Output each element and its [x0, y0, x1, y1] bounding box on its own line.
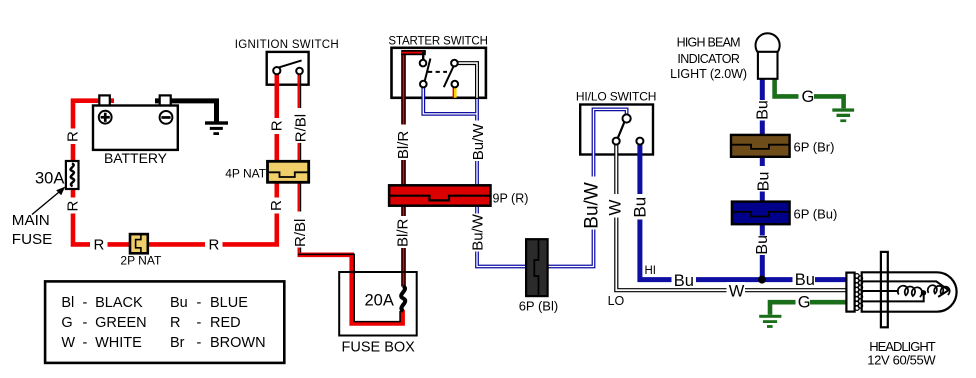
connector 9P (R): [389, 185, 490, 205]
starter switch box: [392, 48, 486, 98]
svg-text:INDICATOR: INDICATOR: [677, 52, 740, 66]
wire label R above 4P NAT: [268, 118, 285, 134]
wire label R/Bl below 4P NAT: [292, 212, 309, 248]
wire label Bu horizontal 2: [793, 271, 816, 289]
connector 6P (Bu): [732, 202, 790, 225]
svg-text:Bu/W: Bu/W: [581, 182, 602, 229]
svg-text:-: -: [197, 335, 202, 351]
connector 2P NAT: [130, 234, 148, 253]
svg-text:HI: HI: [645, 265, 657, 277]
wire label Bu/W below 9P: [470, 213, 487, 251]
connector 6P (Bl): [526, 239, 548, 296]
ground symbol bottom right green: [759, 315, 781, 328]
svg-text:BROWN: BROWN: [210, 335, 266, 351]
svg-text:IGNITION SWITCH: IGNITION SWITCH: [235, 39, 339, 51]
svg-text:Bu: Bu: [795, 271, 815, 289]
svg-text:6P (Bl): 6P (Bl): [519, 299, 559, 314]
svg-text:R/Bl: R/Bl: [292, 114, 309, 142]
fuse 20A squiggle: [401, 286, 405, 311]
svg-text:HIGH BEAM: HIGH BEAM: [677, 35, 741, 49]
wire label Bl/R above 9P: [395, 125, 412, 161]
ground symbol battery: [205, 121, 228, 135]
svg-text:R: R: [94, 237, 105, 254]
wire Y/R stub inside starter switch: [453, 87, 457, 98]
svg-text:6P (Br): 6P (Br): [794, 140, 835, 155]
svg-text:Bl/R: Bl/R: [394, 218, 411, 247]
connector 4P NAT: [268, 161, 309, 182]
indicator bulb: [756, 33, 780, 79]
wire G indicator to ground: [775, 79, 844, 109]
svg-text:-: -: [83, 295, 88, 311]
svg-text:Bl/R: Bl/R: [395, 131, 412, 160]
wire label Bu/W at hi/lo: [581, 177, 602, 230]
svg-text:BLUE: BLUE: [210, 295, 248, 311]
legend text rows: [61, 295, 265, 351]
headlight bulb body: [862, 272, 957, 311]
fuse box: [339, 272, 417, 336]
wire label Bu indicator 2: [755, 166, 773, 192]
wire label W horizontal: [727, 282, 746, 301]
svg-text:-: -: [83, 315, 88, 331]
svg-text:LO: LO: [608, 294, 625, 308]
wire label W below hi/lo: [605, 194, 624, 218]
wire W hi/lo to headlight: [616, 145, 847, 291]
svg-text:STARTER SWITCH: STARTER SWITCH: [388, 36, 488, 48]
svg-text:R: R: [268, 120, 285, 131]
svg-text:-: -: [197, 295, 202, 311]
svg-text:WHITE: WHITE: [95, 335, 142, 351]
svg-text:W: W: [61, 335, 75, 351]
wire label Bu/W above 9P: [470, 121, 487, 162]
svg-text:12V 60/55W: 12V 60/55W: [867, 353, 936, 368]
svg-text:MAIN: MAIN: [12, 212, 50, 229]
ignition switch box: [267, 52, 309, 85]
svg-text:30A: 30A: [35, 170, 64, 188]
svg-text:Bu: Bu: [754, 235, 771, 255]
svg-text:G: G: [802, 88, 815, 106]
wire label Bu horizontal 1: [672, 271, 697, 290]
svg-text:G: G: [798, 294, 811, 312]
wire G headlight to ground: [770, 302, 848, 315]
svg-text:R: R: [268, 200, 285, 211]
connector 6P (Br): [731, 135, 790, 157]
junction Bu: [758, 276, 766, 284]
svg-text:BLACK: BLACK: [95, 295, 143, 311]
svg-text:BATTERY: BATTERY: [104, 150, 168, 166]
headlight flange: [881, 252, 888, 327]
svg-text:Bu: Bu: [754, 100, 771, 120]
svg-text:GREEN: GREEN: [95, 315, 147, 331]
arrow to main fuse: [32, 187, 65, 215]
wire Bu/W starter switch to hi/lo switch: [423, 86, 626, 267]
wire R main red loop battery to ignition via main fuse: [73, 72, 277, 244]
svg-text:Bu: Bu: [170, 295, 188, 311]
svg-text:W: W: [729, 283, 745, 301]
svg-text:HI/LO SWITCH: HI/LO SWITCH: [576, 90, 657, 104]
ignition switch contacts and lever: [273, 60, 303, 74]
main fuse 30A: [66, 161, 79, 189]
svg-text:9P (R): 9P (R): [493, 191, 529, 205]
battery: [93, 95, 178, 149]
svg-text:Bl: Bl: [61, 295, 74, 311]
svg-text:R: R: [65, 201, 82, 212]
svg-text:FUSE BOX: FUSE BOX: [342, 339, 416, 355]
wire label R horizontal 2: [205, 236, 223, 254]
svg-text:R/Bl: R/Bl: [292, 219, 309, 247]
svg-text:R: R: [170, 315, 180, 331]
wire W link inside starter switch: [458, 63, 477, 99]
wire label Bu below hi/lo: [630, 194, 649, 220]
svg-text:Bu/W: Bu/W: [470, 213, 487, 251]
svg-text:Bu: Bu: [674, 272, 694, 290]
svg-text:G: G: [61, 315, 72, 331]
legend box: [45, 281, 284, 363]
wire label R below 4P NAT: [268, 198, 285, 214]
svg-text:W: W: [605, 200, 624, 216]
svg-text:Bu/W: Bu/W: [470, 123, 487, 161]
wire label Bu indicator 1: [754, 100, 771, 121]
svg-text:6P (Bu): 6P (Bu): [794, 206, 838, 221]
svg-text:HEADLIGHT: HEADLIGHT: [869, 339, 936, 354]
hi/lo switch box: [580, 105, 653, 155]
svg-text:FUSE: FUSE: [12, 231, 53, 248]
svg-text:Br: Br: [170, 335, 185, 351]
wire label R below main fuse: [65, 198, 82, 214]
headlight filaments: [898, 285, 950, 297]
svg-text:R: R: [65, 131, 82, 142]
wire label G top: [799, 88, 815, 106]
wire label Bl/R below 9P: [394, 216, 411, 248]
svg-text:4P NAT: 4P NAT: [225, 166, 267, 180]
wire label Bu indicator 3: [754, 235, 771, 255]
wire label R vertical left: [65, 129, 82, 145]
svg-text:RED: RED: [210, 315, 241, 331]
ground symbol top right green: [832, 108, 854, 122]
wire Bu hi/lo to headlight: [640, 145, 848, 280]
wire label R/Bl above 4P NAT: [292, 108, 309, 143]
svg-text:2P NAT: 2P NAT: [120, 254, 162, 268]
svg-text:Bu: Bu: [755, 172, 772, 192]
svg-text:20A: 20A: [365, 292, 394, 310]
wire black battery negative: [155, 101, 217, 122]
svg-text:R: R: [209, 237, 220, 254]
wire Bl/R fusebox to starter switch: [401, 50, 426, 287]
headlight crimps: [855, 274, 863, 311]
svg-text:Bu: Bu: [630, 197, 649, 218]
svg-text:LIGHT (2.0W): LIGHT (2.0W): [670, 67, 747, 81]
starter switch contacts and levers: [420, 59, 458, 88]
wire Bu indicator chain vertical: [760, 79, 765, 280]
wire label R horizontal 1: [90, 236, 108, 254]
svg-text:-: -: [83, 335, 88, 351]
hi/lo switch contacts and lever: [613, 114, 644, 144]
headlight connector plate: [846, 273, 854, 312]
wire R/Bl ignition to fusebox corner: [298, 74, 403, 323]
wire label G bottom: [796, 294, 811, 312]
svg-text:-: -: [197, 315, 202, 331]
